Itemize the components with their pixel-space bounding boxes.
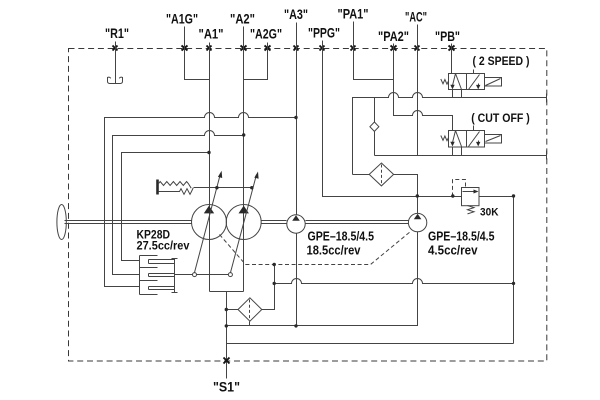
- drive shaft lines: [65, 221, 409, 224]
- filter F2 suction strainer: [238, 298, 262, 321]
- wire suction U under pumps: [210, 291, 244, 293]
- wire pilot line h1 (A3 sense): [105, 113, 297, 287]
- wire PPG to relief valve: [323, 41, 462, 197]
- junction S1 / strainer: [225, 308, 228, 311]
- svg-text:"A1G": "A1G": [166, 11, 198, 27]
- svg-text:18.5cc/rev: 18.5cc/rev: [307, 243, 361, 257]
- wire regulator feedback link: [175, 274, 193, 276]
- wire 2-speed drain line: [353, 93, 547, 175]
- wire suction rail: [227, 232, 418, 326]
- wire strainer to S1 line: [227, 309, 239, 311]
- valve V2 cut-off solenoid valve: [441, 126, 502, 148]
- junction case drain tap: [273, 263, 276, 266]
- port A3 mark: [294, 46, 299, 51]
- drive shaft coupling: [57, 205, 66, 240]
- wire border tick at 2-speed drain: [546, 94, 548, 103]
- port PB mark: [449, 46, 455, 51]
- svg-text:27.5cc/rev: 27.5cc/rev: [137, 241, 191, 253]
- svg-text:"PB": "PB": [435, 28, 460, 44]
- svg-text:30K: 30K: [480, 206, 499, 218]
- svg-text:( 2 SPEED ): ( 2 SPEED ): [473, 56, 530, 68]
- filter F1 inlet line: [353, 174, 370, 176]
- wire cut-off drain line: [375, 155, 547, 157]
- wire case drain manifold: [262, 265, 275, 310]
- svg-text:"A2G": "A2G": [250, 26, 282, 42]
- junction A2 / pilot h2: [242, 133, 245, 136]
- filter F1: [369, 163, 393, 186]
- port AC mark: [415, 46, 420, 51]
- junction drain cross line: [273, 282, 276, 285]
- wire relief outlet: [479, 196, 514, 198]
- filter F1 outlet to pump P4: [394, 175, 418, 214]
- wire 2-speed valve ports to drain line: [453, 90, 462, 98]
- junction PPG line / pump P4 feed: [416, 194, 419, 197]
- port S1 mark: [224, 358, 230, 364]
- svg-text:"PA2": "PA2": [378, 28, 409, 44]
- wire swash link line: [193, 274, 231, 276]
- dashed case drain from pumps: [220, 232, 411, 265]
- svg-text:"A1": "A1": [199, 26, 224, 42]
- junction S1 / suction rail: [225, 324, 228, 327]
- swash arrow pump P1: [195, 171, 223, 273]
- wire strainer bottom stub: [249, 322, 251, 326]
- svg-text:( CUT OFF ): ( CUT OFF ): [471, 113, 530, 125]
- port A2G mark: [265, 46, 271, 51]
- svg-text:GPE–18.5/4.5: GPE–18.5/4.5: [308, 229, 375, 243]
- pump P3 flow triangle: [292, 215, 300, 221]
- svg-text:"PPG": "PPG": [308, 25, 340, 41]
- port PPG mark: [320, 46, 325, 51]
- svg-text:"S1": "S1": [213, 379, 240, 395]
- wire tank drop right: [513, 197, 515, 344]
- plug symbol R1 (tank cup): [108, 77, 123, 84]
- wire cut-off valve ports to drain line: [453, 147, 462, 156]
- pump P1 flow triangle: [204, 206, 214, 214]
- junction A1 / pilot h3: [207, 151, 210, 154]
- svg-text:"A3": "A3": [284, 6, 308, 22]
- port PA1 mark: [351, 46, 356, 51]
- wire A3 vertical: [296, 23, 298, 215]
- enclosure dashed border: [69, 49, 547, 362]
- svg-text:"A2": "A2": [230, 11, 255, 27]
- pump P4 flow triangle: [414, 214, 422, 220]
- wire PB to 2-speed valve: [451, 44, 453, 74]
- wire border tick at cut-off drain: [546, 151, 548, 160]
- pump P4 GPE 4.5cc: [408, 213, 426, 231]
- wire drain cross line: [275, 279, 514, 284]
- svg-text:"PA1": "PA1": [338, 6, 369, 22]
- pump P1 KP28D section 1: [192, 205, 227, 240]
- pump P2 flow triangle: [239, 206, 249, 214]
- junction relief pilot tap: [451, 194, 454, 197]
- port A1G mark: [182, 46, 188, 51]
- pump P2 KP28D section 2: [226, 205, 261, 240]
- spring assembly (regulator springs): [158, 180, 194, 195]
- port A1 mark: [207, 46, 212, 51]
- junction drain / tank drop: [512, 282, 515, 285]
- junction A3 / pilot h1: [294, 116, 297, 119]
- wire pilot line h3 (A1 sense): [122, 153, 210, 261]
- port PA2 mark: [391, 46, 397, 51]
- pivot circle B: [228, 273, 232, 277]
- wire pump P3 suction: [296, 234, 298, 326]
- wire R1 stub: [115, 42, 117, 84]
- valve V1 2-speed solenoid valve: [441, 70, 502, 90]
- regulator KP28D block: [140, 256, 178, 295]
- swash arrow pump P2: [231, 172, 259, 273]
- junction dot feedback-arrow1: [215, 186, 218, 189]
- wire PA1: [354, 22, 394, 80]
- junction P3 suction / rail: [294, 324, 297, 327]
- wire A1 vertical: [209, 43, 211, 292]
- pump P3 GPE 18.5cc: [287, 215, 305, 233]
- wire feedback to swash arrows: [194, 187, 252, 189]
- svg-text:"R1": "R1": [105, 25, 129, 41]
- check valve CV1: [370, 122, 379, 131]
- wire pilot line h2 (A2 sense): [113, 131, 244, 275]
- junction dot feedback-arrow2: [250, 186, 253, 189]
- pivot circle A: [193, 273, 197, 277]
- wire tank rail: [227, 343, 514, 345]
- wire A2 vertical: [243, 27, 245, 292]
- port A2 mark: [241, 46, 247, 51]
- wire A2G: [244, 43, 268, 80]
- svg-text:4.5cc/rev: 4.5cc/rev: [428, 243, 478, 257]
- relief valve RV1 30K: [453, 180, 480, 214]
- svg-text:"AC": "AC": [405, 9, 427, 25]
- wire AC vertical: [417, 25, 419, 156]
- wire A1G: [185, 27, 210, 80]
- port R1 mark: [113, 46, 118, 51]
- check valve CV1 line: [374, 98, 376, 156]
- wire PA2 to cut-off valve pilot: [394, 44, 453, 131]
- svg-text:GPE–18.5/4.5: GPE–18.5/4.5: [428, 229, 495, 243]
- junction relief outlet / tank drop: [512, 194, 515, 197]
- wire suction S1 vertical: [226, 292, 228, 379]
